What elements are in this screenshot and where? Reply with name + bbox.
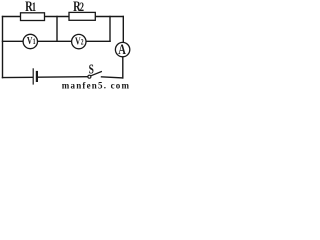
wire junction vertical between R1 and R2 down to voltmeter row xyxy=(56,17,58,42)
wire battery to switch xyxy=(39,76,88,79)
wire between R1 and R2 xyxy=(45,16,70,18)
svg-text:V: V xyxy=(75,36,81,48)
svg-text:1: 1 xyxy=(33,38,36,46)
svg-text:V: V xyxy=(27,36,33,48)
wire right edge down to ammeter xyxy=(122,17,124,44)
svg-text:1: 1 xyxy=(32,1,36,15)
resistor R2 box xyxy=(69,12,95,20)
voltmeter V2 circle xyxy=(72,34,86,48)
wire middle row between V1 and V2 xyxy=(38,40,72,42)
wire top-left segment xyxy=(3,16,21,18)
wire bottom right segment: corner to switch xyxy=(102,77,123,78)
wire ammeter bottom to bottom-right corner xyxy=(122,57,124,78)
svg-text:S: S xyxy=(89,62,94,77)
svg-text:2: 2 xyxy=(80,1,84,15)
label V2 inside voltmeter xyxy=(75,36,84,48)
wire vertical from top wire down to V2 right xyxy=(109,17,111,42)
voltmeter V1 circle xyxy=(23,34,37,48)
wire middle row V2 to corner at x=110 xyxy=(86,40,110,42)
svg-text:manfen5. com: manfen5. com xyxy=(62,80,130,90)
battery long plate (positive) xyxy=(32,69,34,84)
svg-text:A: A xyxy=(118,40,126,57)
wire left edge vertical xyxy=(2,17,4,78)
switch lever xyxy=(91,72,102,76)
ammeter A circle xyxy=(115,42,129,56)
label R2 xyxy=(73,0,84,14)
resistor R1 box xyxy=(21,13,45,21)
battery short plate (negative, thick) xyxy=(36,72,38,81)
svg-text:2: 2 xyxy=(81,39,84,47)
label R1 xyxy=(25,0,36,14)
switch pivot ring xyxy=(88,75,91,78)
label V1 inside voltmeter xyxy=(27,36,36,48)
wire bottom left segment: corner to battery xyxy=(3,76,33,78)
wire R2 to top-right corner xyxy=(95,16,123,18)
wire middle row left: edge to V1 xyxy=(3,40,24,42)
